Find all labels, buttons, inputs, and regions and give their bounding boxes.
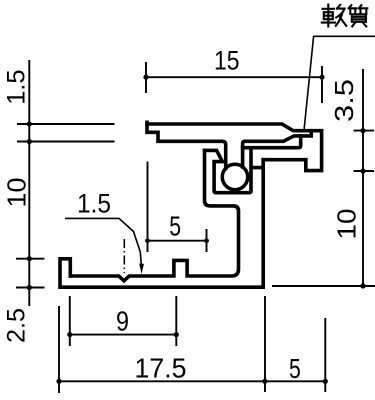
dimension line 17.5 and 5 [59, 380, 325, 382]
dot dim 5 mid right [204, 238, 209, 243]
tick bracket top [354, 130, 375, 132]
wire floor top + V-notch + right tab + inner wall + shelf + outer left wall [70, 150, 238, 280]
dimension line 9 [70, 334, 177, 336]
extension 9 left [69, 296, 71, 346]
dot dim 10 bottom [27, 256, 32, 261]
dot dim 9 left [67, 332, 72, 337]
extension 17.5 left [58, 306, 60, 393]
leader line 1.5 [65, 218, 141, 266]
dimension line 15 [146, 76, 322, 78]
dot dim 3.5 top [360, 128, 365, 133]
dot dim 15 left [143, 75, 148, 80]
extension line arm top [17, 123, 115, 125]
leader line soft label [304, 36, 375, 131]
dot dim 3.5 bottom [360, 168, 365, 173]
dot dim 2.5 bottom [27, 285, 32, 290]
extension line tab top [16, 258, 45, 260]
svg-text:3.5: 3.5 [331, 79, 359, 122]
dot dim 17.5 left [56, 379, 61, 384]
dot dim 1.5 bottom [27, 139, 32, 144]
svg-text:5: 5 [169, 211, 181, 242]
dot dim 17.5 right [262, 379, 267, 384]
tick 15 left [145, 62, 147, 93]
extension 15 right [321, 66, 323, 103]
kanji 軟 [322, 5, 347, 27]
arrowhead 1.5 leader [139, 264, 144, 275]
extension 5 left [147, 162, 149, 253]
wire arm top edge + wedge tip + soft finger top + right bracket [147, 124, 322, 171]
dot dim 5 bottom right [323, 379, 328, 384]
wire arm left end step + underside + neck left wall [147, 122, 226, 168]
label soft material kanji 軟質 [322, 5, 368, 27]
dot dim 15 right [319, 75, 324, 80]
dot dim 1.5 top [27, 121, 32, 126]
wire outer right wall + floor bottom + left tab outer [60, 160, 263, 288]
dot dim 9 right [174, 332, 179, 337]
svg-text:5: 5 [289, 353, 301, 384]
gasket bulb [222, 164, 247, 189]
svg-text:10: 10 [4, 178, 32, 208]
extension line floor bottom left [16, 287, 45, 289]
svg-text:9: 9 [116, 306, 129, 337]
right dimension line [362, 69, 364, 286]
dot dim 10 right bottom [360, 283, 365, 288]
svg-text:1.5: 1.5 [3, 69, 31, 105]
svg-text:17.5: 17.5 [135, 353, 187, 384]
left dimension line [28, 60, 30, 306]
extension 5 bottom right [324, 318, 326, 392]
svg-text:2.5: 2.5 [3, 308, 31, 343]
kanji 質 [349, 5, 368, 26]
centerline dash-dot [123, 239, 125, 273]
dot dim 5 mid left [145, 238, 150, 243]
svg-text:15: 15 [214, 46, 240, 76]
wire neck right wall + underside right + wedge + finger bottom + slot end [243, 131, 312, 167]
extension 9 right [175, 296, 177, 346]
wire tooth + bulb housing [205, 150, 264, 193]
extension 17.5/5 middle [264, 296, 266, 392]
dimension line 5 middle [148, 240, 207, 242]
svg-text:1.5: 1.5 [77, 189, 111, 219]
tick bracket bottom [354, 170, 375, 172]
wire soft gasket strip [243, 136, 301, 148]
svg-text:10: 10 [334, 209, 362, 240]
extension 5 right [206, 229, 208, 252]
extension line arm bottom [17, 141, 115, 143]
extension line floor bottom right [272, 285, 375, 287]
